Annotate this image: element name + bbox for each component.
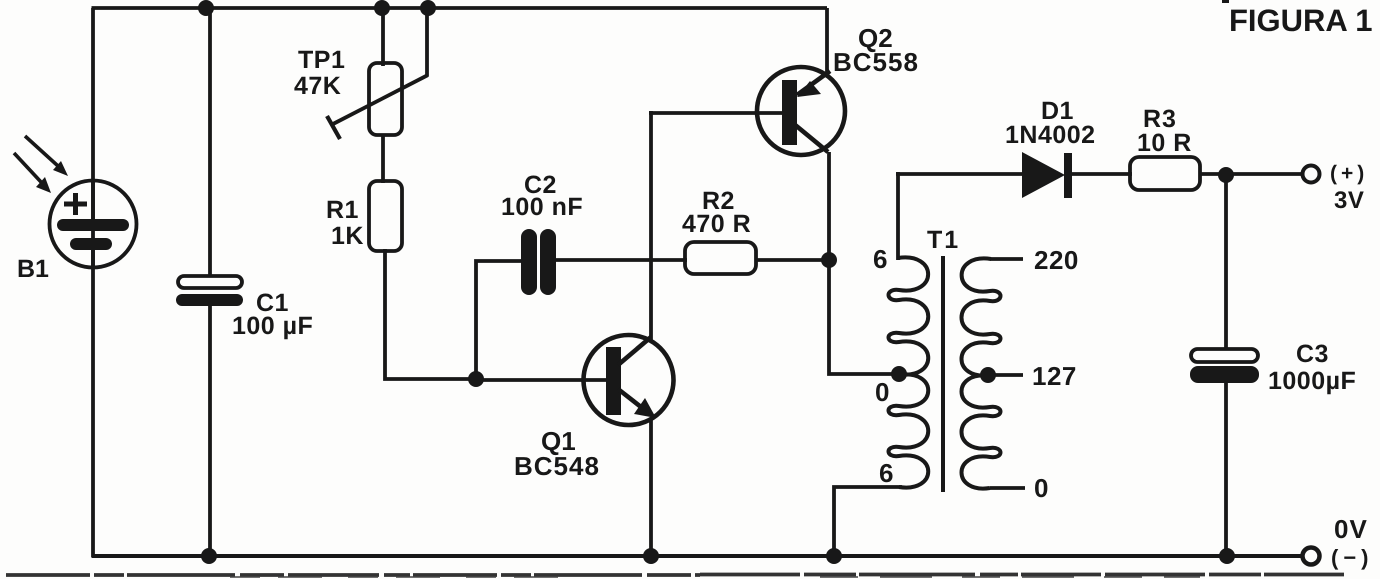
light arrow 2 xyxy=(14,153,51,193)
resistor R3 xyxy=(1130,157,1200,190)
wire top rail xyxy=(92,6,828,10)
wire 127 lead xyxy=(988,373,1023,377)
resistor R1 xyxy=(369,181,402,251)
title FIGURA 1 xyxy=(1222,0,1373,38)
wire Q1 collector riser xyxy=(649,111,653,340)
svg-text:R1: R1 xyxy=(326,196,359,224)
svg-text:0: 0 xyxy=(875,377,889,407)
wire base node to Q1 xyxy=(476,378,610,382)
wire T1 primary top lead xyxy=(896,172,900,260)
svg-text:BC558: BC558 xyxy=(833,47,919,77)
wire C2 to R2 xyxy=(556,258,687,262)
svg-text:10 R: 10 R xyxy=(1137,129,1192,157)
transformer T1 secondary winding lower xyxy=(962,375,1001,488)
resistor R2 xyxy=(685,242,756,274)
transformer T1 secondary winding upper xyxy=(962,258,1001,375)
svg-text:47K: 47K xyxy=(294,72,341,100)
node R2 collector junction xyxy=(821,252,837,268)
wire 220 lead xyxy=(990,257,1023,261)
wire T1 primary bottom lead xyxy=(834,487,902,556)
terminal minus output xyxy=(1303,548,1320,565)
transistor Q1 xyxy=(584,335,674,425)
capacitor C1 xyxy=(176,276,243,306)
transformer T1 primary winding lower xyxy=(889,374,929,487)
svg-text:0: 0 xyxy=(1034,473,1048,503)
svg-text:220: 220 xyxy=(1034,245,1079,275)
svg-text:6: 6 xyxy=(873,244,887,274)
svg-text:FIGURA 1: FIGURA 1 xyxy=(1229,3,1373,38)
wire base node riser to C2 xyxy=(476,261,523,379)
node C3 ground junction xyxy=(1219,548,1235,564)
svg-text:1K: 1K xyxy=(331,222,364,250)
node top wiper junction xyxy=(420,0,436,16)
terminal plus output xyxy=(1303,166,1320,183)
svg-text:100 nF: 100 nF xyxy=(501,193,583,221)
wire TP1 to R1 xyxy=(381,135,385,183)
wire bottom rail xyxy=(92,554,1303,558)
wire left rail xyxy=(91,8,95,557)
node T1 primary tap xyxy=(891,366,907,382)
diode D1 xyxy=(1022,152,1072,198)
svg-text:3V: 3V xyxy=(1334,187,1364,214)
node Q1 base junction xyxy=(468,371,484,387)
svg-text:(−): (−) xyxy=(1331,545,1374,570)
wire D1 anode feed xyxy=(896,172,1026,176)
svg-text:TP1: TP1 xyxy=(298,46,345,74)
trimpot TP1 xyxy=(369,63,402,135)
wire R2 to Q2 collector node xyxy=(756,258,829,262)
svg-text:B1: B1 xyxy=(17,255,49,283)
svg-text:6: 6 xyxy=(879,458,893,488)
wire C3 riser xyxy=(1224,175,1228,351)
wire 0 lead xyxy=(990,486,1025,490)
wire Q2 emitter feed xyxy=(825,8,829,76)
node T1 secondary tap xyxy=(980,367,996,383)
wire Q2 base lead xyxy=(649,111,783,115)
capacitor C2 xyxy=(521,229,556,295)
svg-text:BC548: BC548 xyxy=(514,451,600,481)
node C3 top junction xyxy=(1218,167,1234,183)
node top C1 junction xyxy=(198,0,214,16)
wire wiper lead xyxy=(425,8,429,76)
photocell B1 xyxy=(50,181,137,269)
node T1 ground junction xyxy=(826,548,842,564)
node C1 ground junction xyxy=(201,548,217,564)
svg-text:0V: 0V xyxy=(1334,514,1368,544)
core T1 xyxy=(941,256,945,492)
node Q1 emitter ground junction xyxy=(643,548,659,564)
wire Q2 collector drop xyxy=(829,152,899,374)
svg-text:T1: T1 xyxy=(927,226,960,254)
wire R1 bottom to base node xyxy=(385,249,476,379)
svg-text:1000µF: 1000µF xyxy=(1268,367,1356,395)
trimpot wiper arm xyxy=(327,75,428,139)
transformer T1 primary winding upper xyxy=(889,257,929,374)
svg-text:(+): (+) xyxy=(1330,162,1368,185)
svg-text:127: 127 xyxy=(1032,361,1077,391)
svg-text:1N4002: 1N4002 xyxy=(1005,121,1096,149)
node top TP1 junction xyxy=(374,0,390,16)
wire TP1 top lead xyxy=(381,8,385,66)
transistor Q2 xyxy=(757,67,845,155)
light arrow 1 xyxy=(25,136,68,176)
wire C1 bottom branch xyxy=(208,305,212,556)
svg-text:100 µF: 100 µF xyxy=(232,312,313,340)
wire C1 top branch xyxy=(208,8,212,277)
svg-text:470 R: 470 R xyxy=(682,210,751,238)
scan artifact bottom edge xyxy=(6,575,1344,578)
wire C3 drop xyxy=(1224,380,1228,556)
wire R3 to output xyxy=(1200,172,1301,176)
svg-text:C3: C3 xyxy=(1296,340,1329,368)
wire Q1 emitter drop xyxy=(649,419,653,556)
wire D1 to R3 xyxy=(1069,172,1132,176)
capacitor C3 xyxy=(1190,349,1259,383)
